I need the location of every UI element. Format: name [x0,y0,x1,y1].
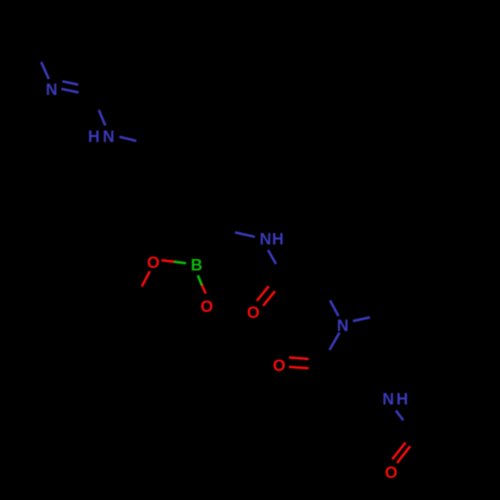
wire bond N3-C(=O) (N half, from NH) [268,250,276,264]
wire bond N4-C right (N half) [353,317,370,321]
wire bond B-O2 (B half) [198,275,202,285]
svg-text:O: O [273,357,286,375]
svg-text:O: O [385,464,398,482]
wire double bond N1=C2 lower line (N half) [61,89,78,93]
wire bond C6-N1 (N half) [41,62,49,79]
svg-text:N: N [382,390,394,408]
svg-text:O: O [247,304,260,322]
svg-text:N: N [46,81,58,99]
wire bond O1-CH3 (O half) [142,271,150,286]
svg-text:H: H [272,230,284,248]
wire bond C2-N2 (N half, to HN) [99,110,106,126]
wire bond B-O2 (O half) [202,285,206,294]
wire double bond C=O5 line 1 [392,443,405,460]
svg-text:N: N [103,128,115,146]
wire bond O1-B (O half) [162,260,175,262]
svg-text:N: N [337,317,349,335]
wire double bond C=O3 line 1 [257,286,269,301]
wire bond Car-N3 (N half, to NH) [235,232,255,236]
svg-text:H: H [396,391,408,409]
svg-text:O: O [201,298,214,316]
wire double bond C=O4 lower line [289,367,309,368]
wire bond C-N4 upper-left (N half, tertiary N) [330,300,338,316]
wire bond N4-C(=O) lower-left (N half) [330,333,340,351]
wire bond N2-CH2 (N half, from HN) [120,137,137,141]
wire double bond C=O3 line 2 [263,291,275,306]
wire double bond N1=C2 upper line (N half) [62,81,78,84]
svg-text:B: B [191,257,203,275]
svg-text:N: N [260,231,272,249]
wire double bond C=O4 upper line [289,358,309,360]
wire bond N5-C(=O) (N half, from bottom NH) [396,411,404,421]
wire double bond C=O5 line 2 [397,446,410,463]
svg-text:O: O [147,254,160,272]
wire bond O1-B (B half) [174,262,186,264]
svg-text:H: H [88,128,100,146]
